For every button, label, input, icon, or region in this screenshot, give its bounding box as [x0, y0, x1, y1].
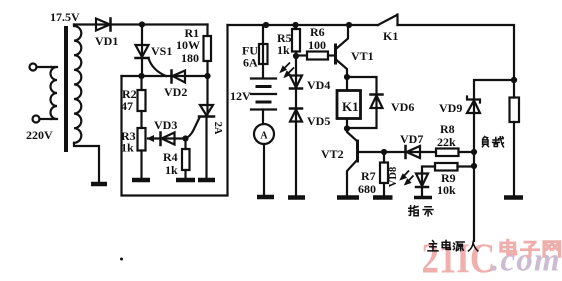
- svg-text:R7: R7: [361, 169, 376, 183]
- svg-text:K1: K1: [342, 99, 359, 114]
- svg-text:R4: R4: [163, 150, 178, 164]
- svg-text:10W: 10W: [176, 38, 200, 52]
- svg-text:1k: 1k: [165, 163, 178, 177]
- svg-text:VD7: VD7: [400, 132, 423, 146]
- svg-text:VD1: VD1: [95, 34, 118, 48]
- svg-text:1k: 1k: [121, 141, 134, 155]
- svg-text:12V: 12V: [230, 89, 251, 103]
- svg-text:100: 100: [308, 38, 326, 52]
- svg-text:6A: 6A: [243, 56, 258, 70]
- svg-text:22k: 22k: [437, 135, 456, 149]
- svg-text:10k: 10k: [437, 183, 456, 197]
- svg-text:VD4: VD4: [307, 78, 330, 92]
- svg-text:R6: R6: [310, 25, 325, 39]
- svg-text:VT2: VT2: [321, 147, 344, 161]
- svg-text:180: 180: [181, 51, 199, 65]
- svg-text:VS1: VS1: [151, 44, 172, 58]
- svg-text:VD9: VD9: [439, 101, 462, 115]
- svg-text:VD5: VD5: [307, 114, 330, 128]
- svg-text:47: 47: [121, 99, 133, 113]
- svg-text:17.5V: 17.5V: [50, 10, 80, 24]
- svg-text:2A: 2A: [212, 122, 223, 135]
- svg-text:R8: R8: [440, 122, 455, 136]
- svg-text:VD3: VD3: [154, 118, 177, 132]
- svg-text:A: A: [260, 131, 268, 142]
- svg-text:K1: K1: [383, 29, 398, 43]
- svg-text:220V: 220V: [26, 128, 53, 142]
- svg-text:VT1: VT1: [351, 49, 374, 63]
- svg-text:VD2: VD2: [164, 85, 187, 99]
- svg-text:VD8: VD8: [388, 167, 399, 187]
- svg-text:VD6: VD6: [391, 100, 414, 114]
- svg-text:1k: 1k: [277, 43, 290, 57]
- svg-text:680: 680: [358, 182, 376, 196]
